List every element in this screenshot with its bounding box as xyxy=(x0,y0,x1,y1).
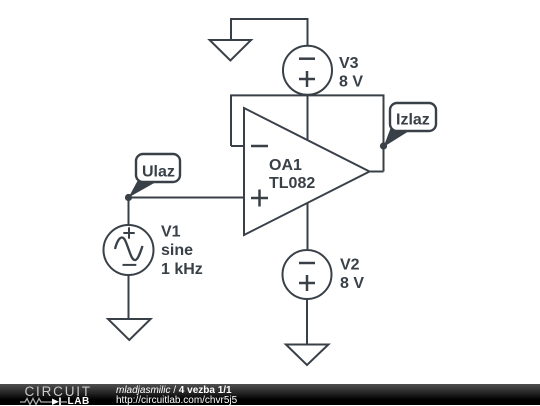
wire non-inverting input xyxy=(129,197,245,199)
svg-text:8 V: 8 V xyxy=(339,74,363,91)
svg-text:V3: V3 xyxy=(339,55,359,72)
wire V+ supply xyxy=(307,95,309,140)
ground xyxy=(108,319,151,340)
svg-text:8 V: 8 V xyxy=(340,275,364,292)
voltage source V3 xyxy=(283,46,332,95)
svg-text:Izlaz: Izlaz xyxy=(396,112,430,129)
node Ulaz xyxy=(125,194,132,201)
svg-text:Ulaz: Ulaz xyxy=(142,164,175,181)
svg-text:V2: V2 xyxy=(340,256,360,273)
wire xyxy=(231,19,308,45)
wire output stub xyxy=(370,171,384,173)
ground xyxy=(286,345,329,366)
wire V1 bottom xyxy=(128,275,130,319)
svg-text:OA1: OA1 xyxy=(269,157,302,174)
svg-text:V1: V1 xyxy=(161,224,181,241)
ground xyxy=(210,40,252,61)
wire V2 bottom xyxy=(306,299,308,345)
svg-text:TL082: TL082 xyxy=(269,175,315,192)
label Izlaz callout xyxy=(384,103,437,147)
node Izlaz xyxy=(380,142,387,149)
label Ulaz callout xyxy=(129,154,181,198)
wire feedback rail xyxy=(231,95,384,171)
svg-text:LAB: LAB xyxy=(68,396,90,405)
svg-text:1 kHz: 1 kHz xyxy=(161,261,203,278)
voltage source V2 xyxy=(283,250,332,299)
svg-text:sine: sine xyxy=(161,242,193,259)
wire V1 top xyxy=(128,198,130,226)
footer text xyxy=(116,385,232,396)
voltage source V1 xyxy=(104,225,154,275)
wire V- supply xyxy=(307,203,309,250)
footer bar xyxy=(0,384,540,405)
CircuitLab logo xyxy=(15,384,125,405)
wire inverting input stub xyxy=(231,145,244,147)
op-amp OA1 xyxy=(244,108,370,235)
